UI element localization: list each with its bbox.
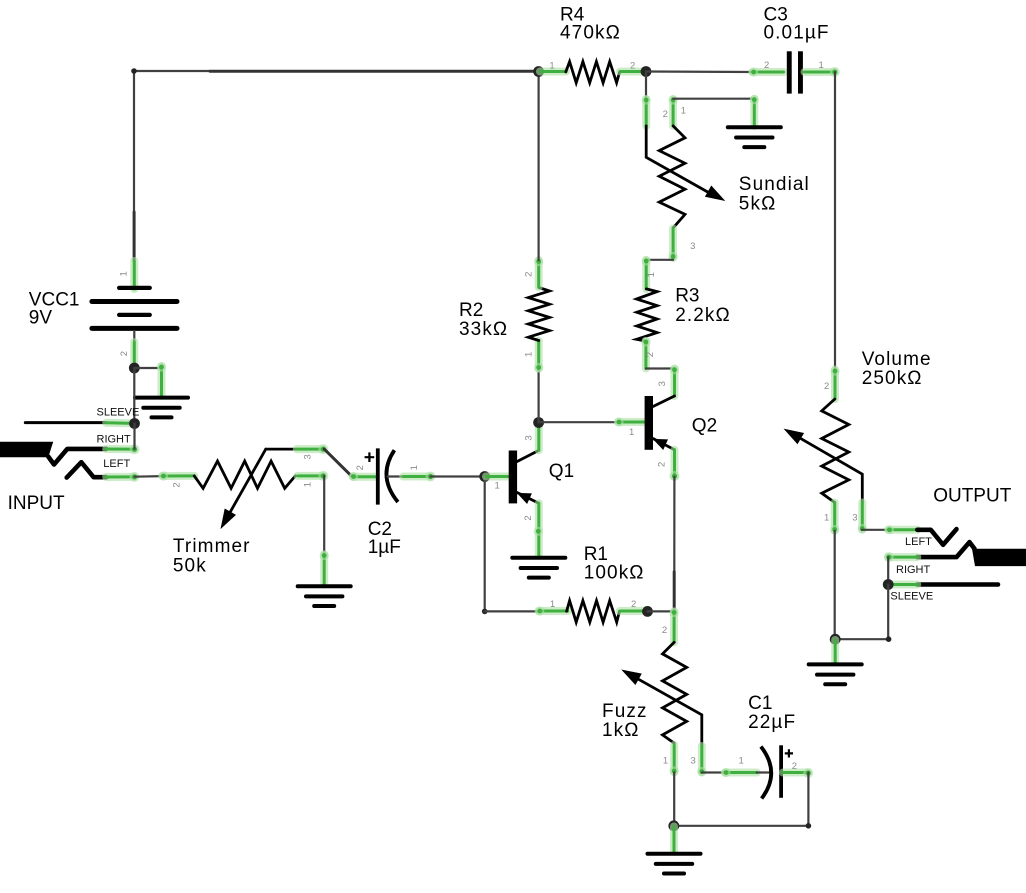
- wire C2 to Q1 base: [431, 475, 485, 477]
- svg-text:2.2kΩ: 2.2kΩ: [675, 305, 731, 326]
- sundial wiper arrow: [646, 126, 708, 192]
- svg-text:33kΩ: 33kΩ: [459, 319, 508, 340]
- capacitor C3 0.01uF: [749, 5, 840, 94]
- potentiometer Fuzz 1k: [602, 608, 706, 776]
- wire sleeve to right contact: [133, 424, 135, 450]
- node C1 corner: [806, 823, 812, 829]
- resistor R4 470k: [540, 5, 645, 83]
- wire R3 to Q2 collector: [646, 367, 675, 369]
- svg-text:C1: C1: [748, 693, 772, 714]
- fuzz wiper arrow: [639, 679, 702, 746]
- wire trimmer pin1 to ground: [323, 476, 325, 555]
- svg-text:1: 1: [495, 481, 500, 492]
- svg-text:OUTPUT: OUTPUT: [933, 485, 1012, 506]
- svg-text:100kΩ: 100kΩ: [584, 562, 645, 583]
- jack J2 OUTPUT: [884, 485, 1026, 602]
- svg-text:LEFT: LEFT: [905, 536, 932, 548]
- volume wiper arrow: [801, 439, 863, 503]
- svg-text:3: 3: [852, 513, 857, 524]
- svg-text:1: 1: [302, 482, 313, 487]
- svg-text:250kΩ: 250kΩ: [862, 368, 923, 389]
- svg-text:SLEEVE: SLEEVE: [97, 406, 140, 418]
- svg-text:3: 3: [302, 454, 313, 459]
- svg-text:2: 2: [523, 272, 534, 277]
- svg-text:2: 2: [656, 462, 667, 467]
- capacitor C2 1uF electrolytic: [349, 448, 436, 558]
- svg-text:1: 1: [549, 60, 554, 71]
- svg-text:1: 1: [646, 272, 657, 277]
- svg-text:1: 1: [550, 599, 555, 610]
- wire Q1 base junction down: [484, 477, 486, 612]
- output sleeve contact: [917, 582, 998, 587]
- resistor R2 33k: [459, 257, 550, 372]
- svg-text:470kΩ: 470kΩ: [560, 23, 621, 44]
- svg-text:1: 1: [738, 756, 743, 767]
- node rail R4 junction: [533, 66, 544, 77]
- wire battery junction to ground stub: [134, 367, 162, 369]
- svg-text:5kΩ: 5kΩ: [739, 194, 777, 215]
- svg-text:0.01µF: 0.01µF: [764, 23, 830, 44]
- potentiometer Trimmer 50k: [159, 444, 328, 576]
- wire volume pin3 to output left: [862, 529, 889, 531]
- svg-text:1µF: 1µF: [368, 537, 401, 558]
- svg-text:2: 2: [645, 352, 656, 357]
- svg-text:1: 1: [409, 465, 420, 470]
- svg-text:2: 2: [630, 60, 635, 71]
- jack J1 INPUT: [0, 406, 140, 514]
- ground near C3: [728, 95, 781, 147]
- wire output right to sleeve: [887, 557, 889, 584]
- svg-text:3: 3: [690, 756, 695, 767]
- ground below fuzz: [648, 827, 701, 874]
- wire input left to trimmer: [135, 475, 163, 478]
- node fuzz ground junction: [668, 820, 679, 831]
- input body: [0, 442, 53, 458]
- ground at Q1 emitter: [512, 558, 565, 578]
- transistor Q2: [614, 365, 717, 481]
- wire volume pin1 down: [834, 531, 836, 639]
- svg-text:1: 1: [819, 60, 824, 71]
- output left contact: [917, 529, 956, 545]
- ground at battery: [135, 362, 188, 417]
- wire battery junction down to input sleeve: [133, 368, 135, 424]
- ground at trimmer: [298, 551, 351, 606]
- svg-text:2: 2: [119, 351, 130, 356]
- node input sleeve junction: [129, 418, 140, 429]
- svg-text:Sundial: Sundial: [739, 174, 810, 195]
- svg-text:3: 3: [657, 381, 668, 386]
- wire fuzz pin1 down: [673, 772, 675, 826]
- wire top rail horizontal: [134, 70, 210, 72]
- svg-text:2: 2: [355, 465, 366, 470]
- svg-text:2: 2: [662, 625, 667, 636]
- svg-text:3: 3: [690, 241, 695, 252]
- node Q1 collector junction: [533, 417, 544, 428]
- wire R2 top to rail: [537, 71, 539, 260]
- input left contact: [67, 462, 107, 477]
- svg-text:RIGHT: RIGHT: [97, 434, 132, 446]
- svg-text:2: 2: [764, 60, 769, 71]
- transistor Q1: [486, 424, 574, 556]
- svg-text:1: 1: [681, 106, 686, 117]
- wire C3 right down to volume: [834, 72, 836, 370]
- svg-text:1: 1: [824, 513, 829, 524]
- svg-text:9V: 9V: [29, 308, 53, 329]
- svg-text:2: 2: [171, 482, 182, 487]
- wire top rail thick part: [210, 70, 539, 73]
- svg-text:2: 2: [792, 761, 797, 772]
- svg-text:2: 2: [824, 381, 829, 392]
- wire C1 down and left: [674, 773, 809, 826]
- svg-text:2: 2: [663, 109, 668, 120]
- svg-text:INPUT: INPUT: [8, 493, 65, 514]
- resistor R1 100k: [535, 544, 645, 622]
- node R1 right junction: [642, 606, 653, 617]
- svg-text:1: 1: [663, 756, 668, 767]
- battery VCC1: [29, 261, 177, 367]
- svg-text:1: 1: [119, 271, 130, 276]
- potentiometer Sundial 5k: [642, 95, 810, 261]
- svg-text:2: 2: [631, 599, 636, 610]
- wire Q2 emitter down: [673, 477, 675, 572]
- wire sundial pin3 to R3: [646, 259, 673, 261]
- wire top left vertical: [133, 71, 135, 212]
- svg-text:LEFT: LEFT: [103, 458, 130, 470]
- svg-text:SLEEVE: SLEEVE: [890, 591, 933, 603]
- svg-text:2: 2: [523, 515, 534, 520]
- svg-text:Fuzz: Fuzz: [602, 701, 648, 722]
- wire trimmer pin3 to C2: [324, 449, 353, 477]
- svg-text:RIGHT: RIGHT: [896, 564, 931, 576]
- svg-text:1: 1: [629, 427, 634, 438]
- wire sundial pin1 to ground: [673, 98, 754, 100]
- wire junction to C3: [646, 70, 752, 73]
- node battery negative junction: [129, 363, 140, 374]
- output body: [972, 549, 1026, 566]
- node Q1 base junction: [479, 471, 490, 482]
- ground at output: [809, 640, 862, 684]
- svg-text:Q2: Q2: [692, 416, 717, 437]
- output right contact: [917, 542, 974, 557]
- node top-left corner: [131, 68, 137, 74]
- input sleeve contact: [25, 421, 106, 424]
- svg-text:22µF: 22µF: [748, 712, 796, 733]
- svg-text:R3: R3: [675, 286, 699, 307]
- svg-text:1: 1: [523, 352, 534, 357]
- wire corner to R1: [485, 610, 539, 612]
- node output corner: [886, 636, 892, 642]
- node output sleeve junction: [883, 579, 894, 590]
- wire R1 junction to fuzz corner: [648, 610, 675, 612]
- trimmer wiper arrow: [230, 449, 265, 512]
- node volume ground junction: [830, 634, 841, 645]
- node corner R1 left: [482, 609, 488, 615]
- resistor R3 2.2k: [637, 256, 731, 368]
- capacitor C1 22uF electrolytic: [721, 693, 813, 799]
- wire Q1 collector to R2: [537, 369, 539, 423]
- svg-text:3: 3: [524, 435, 535, 440]
- potentiometer Volume 250k: [784, 349, 932, 534]
- svg-text:50k: 50k: [173, 556, 207, 577]
- wire fuzz pin3 to C1: [702, 771, 725, 773]
- svg-text:R2: R2: [459, 300, 483, 321]
- wire Q1 collector junction to Q2 base: [539, 421, 617, 423]
- input right contact: [48, 449, 106, 465]
- svg-text:Trimmer: Trimmer: [173, 536, 251, 557]
- svg-text:1kΩ: 1kΩ: [602, 720, 640, 741]
- wire output sleeve down to volume ground: [835, 585, 888, 640]
- svg-text:Volume: Volume: [862, 349, 932, 370]
- wire sundial junction down: [645, 72, 647, 100]
- svg-text:Q1: Q1: [549, 461, 574, 482]
- node rail right junction: [641, 66, 652, 77]
